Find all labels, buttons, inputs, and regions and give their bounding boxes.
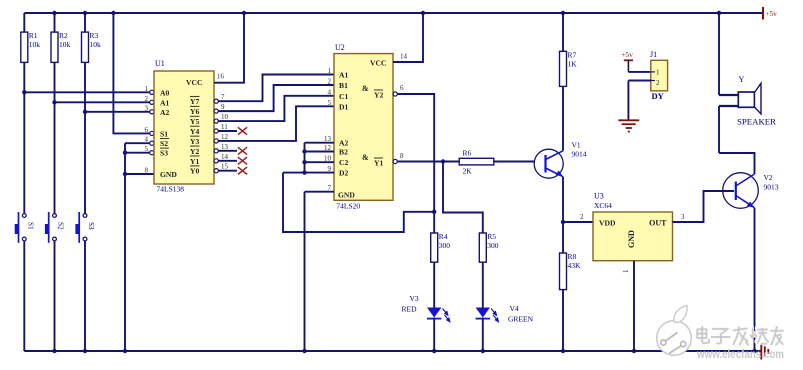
wire U1 Y5 to U2 input	[214, 96, 334, 123]
U2 pin numbers	[324, 53, 685, 222]
no-connect X on U1 Y2	[214, 147, 247, 154]
wire D2 feedback jog to Y2 node	[283, 173, 434, 232]
svg-text:9014: 9014	[572, 150, 587, 159]
wire U1 Y7 to U2 input	[214, 75, 334, 104]
svg-text:S1: S1	[160, 129, 168, 138]
svg-text:R3: R3	[90, 31, 99, 40]
svg-text:S2: S2	[57, 222, 65, 230]
wire R5 to LED V4	[482, 262, 484, 307]
wire LED V3 to ground rail	[432, 319, 436, 354]
svg-text:S1: S1	[27, 222, 35, 230]
svg-text:A2: A2	[339, 139, 348, 148]
wire rail to R7	[561, 11, 565, 52]
label V4 GREEN	[508, 304, 534, 324]
resistor R7	[560, 50, 578, 86]
wire R6 to V1 base	[494, 161, 535, 163]
svg-text:1: 1	[622, 269, 630, 273]
svg-text:GND: GND	[627, 230, 636, 248]
svg-text:2: 2	[580, 213, 584, 221]
svg-text:13: 13	[221, 143, 229, 151]
resistor R5	[479, 232, 499, 262]
svg-text:&: &	[362, 153, 369, 162]
svg-text:R4: R4	[439, 232, 448, 241]
svg-text:J1: J1	[650, 50, 657, 59]
resistor R6 2K	[459, 149, 494, 176]
svg-text:SPEAKER: SPEAKER	[737, 118, 777, 127]
wire R1 to U1 input	[22, 90, 154, 94]
speaker Y	[737, 75, 777, 127]
wire +5v to J1 pin1	[628, 71, 650, 73]
svg-text:11: 11	[221, 123, 228, 131]
svg-text:GND: GND	[160, 170, 177, 179]
wire U1 Y6 to U2 input	[214, 85, 334, 113]
wire R2 to U1 input	[52, 100, 154, 104]
wire U1 Y3 to U2 input	[214, 106, 334, 143]
svg-text:1K: 1K	[568, 59, 578, 68]
resistor R2	[51, 31, 71, 62]
svg-text:VDD: VDD	[599, 219, 616, 228]
wire ground bottom rail	[24, 350, 760, 352]
power port +5v at J1	[621, 50, 633, 72]
wire R8 to ground rail	[561, 290, 565, 354]
svg-text:10k: 10k	[59, 40, 71, 49]
svg-text:6: 6	[400, 84, 404, 92]
svg-text:R8: R8	[568, 252, 577, 261]
svg-text:3: 3	[145, 104, 149, 112]
pin bubble U1 pin5	[150, 151, 154, 155]
svg-text:10k: 10k	[90, 40, 102, 49]
svg-text:3: 3	[681, 213, 685, 221]
svg-text:14: 14	[221, 153, 229, 161]
svg-text:+5v: +5v	[621, 50, 633, 59]
svg-text:5: 5	[328, 99, 332, 107]
svg-text:VCC: VCC	[186, 78, 202, 87]
wire column R2/S2	[52, 11, 56, 353]
svg-text:Y2: Y2	[190, 147, 199, 156]
svg-text:Y6: Y6	[190, 107, 199, 116]
svg-text:1: 1	[656, 69, 660, 77]
svg-text:www.elecfans.com: www.elecfans.com	[696, 347, 784, 361]
wire U2 Y1 pin8 to R6 and R5 branch	[393, 159, 483, 233]
wire LED V4 to ground rail	[481, 319, 485, 354]
svg-text:43K: 43K	[568, 261, 582, 270]
wire V2 emitter to ground rail	[752, 208, 756, 353]
svg-text:6: 6	[145, 126, 149, 134]
ground symbol bottom right	[755, 344, 769, 360]
svg-text:R1: R1	[29, 31, 38, 40]
svg-text:D1: D1	[339, 102, 348, 111]
svg-text:OUT: OUT	[649, 219, 667, 228]
svg-text:D2: D2	[339, 169, 348, 178]
op-amp U1 74LS138 decoder body	[154, 59, 214, 194]
svg-text:1: 1	[145, 85, 149, 93]
wire R3 to U1 input	[83, 110, 154, 114]
svg-text:V2: V2	[764, 173, 773, 182]
wire J1 pin2 to ground	[628, 81, 650, 120]
op-amp U2 74LS20 body	[334, 43, 393, 211]
wire column R1/S1	[23, 13, 25, 351]
wire U2 gate2 input bus	[283, 143, 334, 175]
svg-text:2: 2	[328, 78, 332, 86]
no-connect X on U1 Y4	[214, 127, 247, 134]
op-amp U3 XC64 body	[593, 192, 673, 261]
svg-text:74LS138: 74LS138	[157, 185, 185, 194]
pin bubble U1 pin4	[150, 141, 154, 145]
svg-text:+5v: +5v	[766, 10, 778, 18]
transistor V1 9014	[534, 141, 587, 179]
svg-text:U2: U2	[335, 43, 345, 52]
wire R4 to LED V3	[433, 262, 435, 307]
svg-text:S3: S3	[87, 222, 95, 230]
svg-text:S3: S3	[160, 149, 168, 158]
no-connect X on U1 Y1	[214, 157, 247, 164]
wire speaker to V2 collector	[719, 153, 755, 174]
svg-text:Y1: Y1	[190, 157, 199, 166]
svg-text:Y: Y	[739, 75, 745, 84]
svg-text:9013: 9013	[764, 183, 779, 192]
svg-text:Y4: Y4	[190, 127, 199, 136]
svg-text:12: 12	[221, 133, 229, 141]
ground symbol below J1	[618, 120, 639, 131]
wire U2 GND pin7 to ground rail	[302, 192, 334, 353]
svg-text:8: 8	[400, 152, 404, 160]
svg-text:300: 300	[439, 241, 451, 250]
svg-text:GND: GND	[338, 191, 355, 200]
wire U1 S2/S3/GND to ground bus	[123, 143, 154, 353]
label V3 RED	[402, 294, 419, 314]
svg-text:U3: U3	[594, 192, 604, 201]
svg-text:9: 9	[221, 103, 225, 111]
svg-text:R6: R6	[463, 149, 472, 158]
svg-text:A1: A1	[339, 71, 348, 80]
switch S1	[15, 212, 35, 243]
svg-text:2: 2	[656, 79, 660, 87]
power port +5V top right	[763, 7, 777, 20]
svg-text:5: 5	[145, 145, 149, 153]
LED V3 red	[427, 308, 450, 322]
U1 pin names	[160, 78, 202, 179]
svg-text:R2: R2	[59, 31, 68, 40]
svg-text:7: 7	[221, 93, 225, 101]
svg-text:V4: V4	[510, 304, 519, 313]
svg-text:R5: R5	[487, 232, 496, 241]
svg-text:2: 2	[145, 95, 149, 103]
svg-text:Y3: Y3	[190, 137, 199, 146]
resistor R8	[560, 252, 582, 290]
wire top rail to U1 pin6 S1	[111, 11, 154, 136]
wire column R3/S3	[83, 11, 87, 353]
wire U3 GND pin1 to ground rail	[622, 261, 636, 353]
connector J1 DY	[650, 50, 668, 101]
wire V1 emitter to R8 and U3 VDD	[561, 177, 593, 253]
wire U2 Y2 pin6 to R4 column	[393, 92, 436, 233]
no-connect X on U1 Y0	[214, 167, 247, 174]
svg-text:14: 14	[400, 53, 408, 61]
svg-text:74LS20: 74LS20	[336, 202, 360, 211]
svg-text:2K: 2K	[463, 167, 473, 176]
svg-text:Y2: Y2	[374, 91, 383, 100]
wire U2 VCC pin14 to rail	[393, 11, 425, 62]
svg-text:&: &	[362, 84, 369, 93]
switch S2	[45, 212, 65, 243]
svg-text:VCC: VCC	[370, 59, 386, 68]
wire rail to speaker	[717, 11, 739, 153]
LED V4 green	[476, 308, 499, 322]
svg-text:C2: C2	[339, 158, 348, 167]
svg-text:V3: V3	[410, 294, 419, 303]
resistor R1	[21, 31, 41, 62]
U1 pin numbers	[145, 73, 229, 175]
U2 pin names	[338, 59, 386, 200]
svg-text:S2: S2	[160, 139, 168, 148]
watermark logo	[657, 306, 692, 356]
svg-text:4: 4	[145, 136, 149, 144]
svg-text:DY: DY	[652, 91, 664, 101]
svg-text:15: 15	[221, 163, 229, 171]
svg-text:10: 10	[221, 113, 229, 121]
svg-text:V1: V1	[572, 141, 581, 150]
svg-text:XC64: XC64	[594, 201, 612, 210]
svg-text:Y1: Y1	[374, 159, 383, 168]
svg-text:1: 1	[328, 67, 332, 75]
svg-text:16: 16	[217, 73, 225, 81]
svg-text:A1: A1	[160, 98, 169, 107]
svg-text:4: 4	[328, 88, 332, 96]
svg-text:Y5: Y5	[190, 117, 199, 126]
wire U1 VCC pin16 to rail	[214, 11, 246, 83]
svg-text:Y7: Y7	[190, 97, 199, 106]
svg-text:R7: R7	[568, 50, 577, 59]
svg-text:U1: U1	[155, 59, 165, 68]
resistor R3	[82, 31, 102, 62]
svg-text:B1: B1	[339, 81, 348, 90]
svg-text:8: 8	[145, 167, 149, 175]
resistor R4	[431, 232, 451, 262]
svg-text:RED: RED	[402, 305, 418, 314]
transistor V2 9013	[723, 173, 779, 209]
svg-text:B2: B2	[339, 148, 348, 157]
svg-text:A0: A0	[160, 88, 169, 97]
watermark text dian zi fa shao you	[696, 326, 783, 345]
svg-text:300: 300	[487, 241, 499, 250]
svg-text:A2: A2	[160, 108, 169, 117]
svg-text:Y0: Y0	[190, 167, 199, 176]
wire +5V top rail	[24, 12, 763, 14]
switch S3	[75, 212, 95, 243]
svg-text:GREEN: GREEN	[508, 315, 534, 324]
svg-text:10k: 10k	[29, 40, 41, 49]
wire U3 OUT pin3 to V2 base	[673, 191, 735, 222]
wire R7 to V1 collector	[562, 86, 564, 150]
svg-text:C1: C1	[339, 92, 348, 101]
